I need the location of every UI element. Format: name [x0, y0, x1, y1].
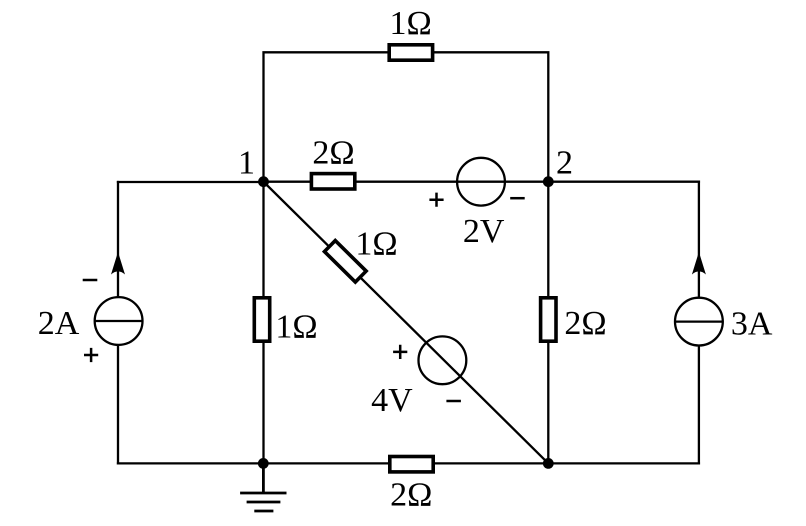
current source 3A (circle with horizontal bar)	[675, 298, 723, 346]
ground node junction dot	[258, 458, 269, 469]
current direction arrow for 2A source (pointing up)	[111, 252, 125, 275]
minus sign of 2V source	[510, 197, 525, 200]
svg-text:2Ω: 2Ω	[312, 135, 354, 172]
resistor 1Ω (top branch)	[389, 45, 432, 60]
wire: right vertical branch (3A source branch)	[698, 182, 700, 464]
plus sign of 2A source (bottom)	[84, 348, 98, 362]
current direction arrow for 3A source (pointing up)	[692, 252, 706, 275]
node 2 junction dot	[543, 176, 554, 187]
wire: left horizontal from top-left corner to node 1	[118, 181, 264, 183]
svg-text:2Ω: 2Ω	[390, 477, 432, 514]
svg-text:2V: 2V	[463, 213, 505, 250]
minus sign of 2A source (top)	[83, 279, 98, 282]
resistor 1Ω (diagonal branch, rotated)	[324, 241, 366, 282]
resistor 2Ω (bottom branch)	[390, 457, 433, 472]
ground symbol	[240, 463, 286, 511]
wire: top loop from node 1 up and across to node 2	[264, 52, 549, 182]
wire: vertical branch node 2 to bottom-right node (right 2Ω branch)	[547, 182, 549, 464]
svg-text:1: 1	[238, 144, 255, 181]
current source 2A (circle with horizontal bar)	[95, 297, 143, 345]
svg-text:2Ω: 2Ω	[564, 305, 606, 342]
node 1 junction dot	[258, 176, 269, 187]
wire: node 2 to top-right corner horizontal	[548, 181, 699, 183]
bottom-right junction dot	[543, 458, 554, 469]
plus sign of 4V source	[393, 345, 407, 359]
svg-text:2: 2	[556, 145, 573, 182]
minus sign of 4V source	[446, 400, 461, 403]
plus sign of 2V source	[429, 193, 443, 207]
svg-text:2A: 2A	[38, 305, 80, 342]
wire: node 1 to node 2 horizontal (through 2V source)	[264, 181, 549, 183]
voltage source 2V (circle on node1-node2 wire)	[457, 158, 505, 206]
resistor 2Ω (node1-node2 branch)	[311, 174, 354, 189]
wire: diagonal branch node 1 to bottom-right node	[264, 182, 549, 464]
svg-text:1Ω: 1Ω	[275, 308, 317, 345]
resistor 1Ω (left vertical branch)	[254, 298, 269, 341]
wire: left vertical branch (2A source branch)	[117, 182, 119, 463]
voltage source 4V (circle on diagonal wire)	[419, 336, 467, 384]
wire: vertical branch node 1 to ground node (left 1Ω branch)	[262, 182, 264, 464]
svg-text:1Ω: 1Ω	[355, 226, 397, 263]
svg-text:4V: 4V	[371, 382, 413, 419]
resistor 2Ω (right vertical branch)	[541, 298, 556, 341]
svg-text:1Ω: 1Ω	[389, 5, 431, 42]
wire: bottom horizontal net	[118, 462, 699, 464]
svg-text:3A: 3A	[731, 306, 773, 343]
